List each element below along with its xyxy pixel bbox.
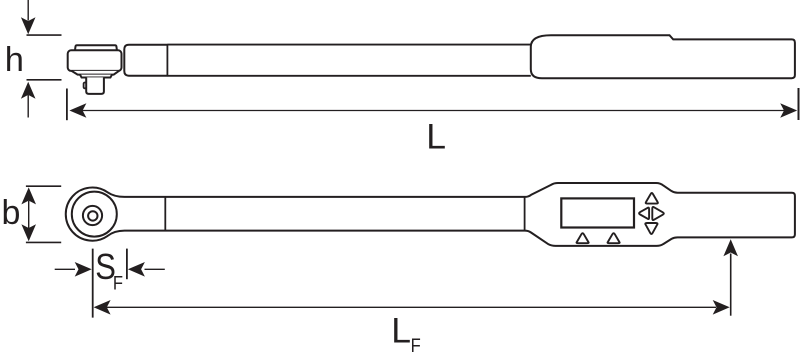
b up arrowhead — [21, 187, 36, 204]
L left extension line — [66, 89, 68, 121]
head step 2 — [80, 75, 112, 78]
L left arrowhead — [69, 103, 86, 118]
grip (side view) — [531, 35, 795, 78]
svg-text:b: b — [2, 194, 21, 232]
h dimension upper tick — [27, 34, 62, 36]
svg-text:F: F — [113, 272, 123, 294]
label L subscript F — [411, 335, 421, 357]
h dimension down arrowhead — [21, 17, 36, 34]
shaft end vertical line (top view) — [524, 197, 526, 231]
h dimension up arrow line — [27, 95, 29, 118]
small circle — [88, 211, 97, 220]
button triangle 1 — [577, 233, 589, 243]
h dimension lower tick — [27, 79, 62, 81]
tube top edge (side view) — [167, 44, 530, 46]
h dimension up arrowhead — [21, 82, 36, 99]
SF left-pointing arrow line — [145, 268, 165, 270]
b dimension lower tick — [26, 241, 61, 243]
handle segment 1 (side view) — [124, 45, 167, 76]
b down arrowhead — [21, 224, 36, 241]
head step 1 — [72, 71, 119, 75]
LF dimension line — [106, 306, 716, 308]
label S subscript F — [113, 272, 123, 294]
head top plate (side view) — [75, 45, 117, 51]
button triangle 2 — [608, 233, 620, 243]
cluster right triangle — [652, 207, 664, 220]
SF left-pointing arrowhead — [128, 262, 145, 277]
svg-text:F: F — [411, 335, 421, 357]
LF right vertical line — [730, 254, 732, 316]
SF left extension line — [92, 249, 94, 318]
divider line (side view) — [166, 45, 168, 76]
LCD display — [561, 198, 634, 227]
b dimension upper tick — [26, 185, 61, 187]
head outline + full body outline (top view) — [66, 183, 795, 246]
cluster left triangle — [639, 208, 649, 220]
LF up arrowhead — [723, 239, 738, 256]
svg-text:L: L — [426, 117, 446, 157]
svg-text:L: L — [391, 311, 411, 351]
SF right-pointing arrow line — [55, 268, 75, 270]
LF left arrowhead — [94, 300, 111, 315]
svg-text:h: h — [5, 41, 24, 79]
b arrow line — [28, 201, 30, 228]
L right extension line — [798, 88, 800, 120]
cluster down triangle — [645, 223, 657, 234]
middle circle — [83, 206, 102, 225]
tube bottom edge (side view) — [167, 75, 530, 77]
LF right arrowhead — [713, 300, 730, 315]
L right arrowhead — [780, 103, 797, 118]
ratchet head body (side view) — [68, 50, 122, 71]
cluster up triangle — [646, 193, 658, 204]
L dimension line — [80, 110, 786, 112]
SF right-pointing arrowhead — [75, 262, 92, 277]
square drive — [86, 77, 104, 94]
h dimension down arrow line — [27, 0, 29, 21]
SF right extension line — [126, 249, 128, 280]
divider line (top view) — [164, 197, 166, 231]
detent pin — [84, 83, 89, 89]
label S — [95, 248, 116, 288]
ring circle — [72, 192, 117, 237]
